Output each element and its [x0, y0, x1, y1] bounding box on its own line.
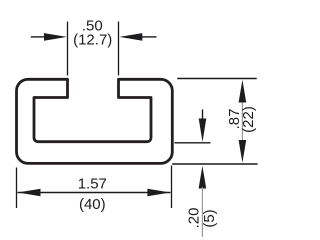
upper arrowhead (.20, points down)	[199, 119, 207, 143]
upper leader shaft (.20)	[202, 110, 204, 123]
svg-text:(5): (5)	[201, 209, 218, 227]
lower arrowhead (.20, points up)	[199, 166, 207, 189]
extension line bottom (.87 / .20 outer)	[172, 163, 257, 165]
channel cross-section profile	[17, 79, 173, 163]
extension line left (.50 slot)	[67, 22, 69, 76]
svg-text:1.57: 1.57	[78, 176, 107, 193]
top arrowhead (.87)	[239, 80, 247, 103]
extension line right (1.57)	[171, 166, 173, 209]
svg-text:(12.7): (12.7)	[73, 32, 112, 49]
svg-text:(22): (22)	[240, 106, 257, 133]
right arrowhead (1.57)	[147, 189, 170, 197]
left leader shaft (.50)	[31, 36, 46, 38]
left arrowhead (.50)	[44, 33, 67, 41]
extension line top (.87)	[177, 78, 256, 80]
dimension line (.87, gray)	[241, 100, 243, 143]
left arrowhead (1.57)	[18, 189, 41, 197]
dimension line (1.57)	[18, 192, 171, 194]
extension line inner bottom (.20)	[175, 142, 211, 144]
lower leader shaft (.20, gray)	[201, 187, 203, 237]
right arrowhead (.50)	[119, 33, 142, 41]
svg-text:(40): (40)	[79, 196, 106, 213]
extension line right (.50 slot)	[118, 22, 120, 76]
extension line left (1.57)	[16, 168, 18, 209]
bottom arrowhead (.87)	[239, 140, 247, 163]
svg-text:.20: .20	[186, 208, 203, 229]
right leader shaft (.50)	[141, 36, 157, 38]
